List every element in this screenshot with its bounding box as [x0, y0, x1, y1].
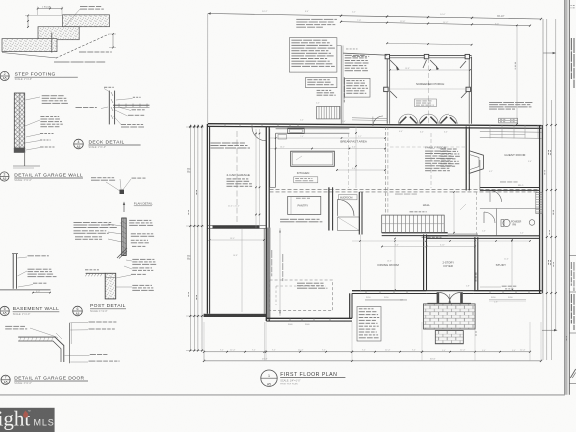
hall south wall — [382, 232, 448, 234]
title circle 3/A5 — [0, 172, 9, 181]
porch mid vertical — [428, 58, 430, 123]
slab note text — [297, 283, 305, 284]
porch roof edge line — [387, 43, 471, 45]
title block dividers — [569, 255, 576, 257]
study wall dim row — [352, 240, 530, 242]
leaders garage wall — [26, 97, 41, 100]
study north wall — [427, 235, 540, 237]
breakfast dim — [337, 169, 385, 171]
garage right / kitchen wall — [265, 127, 267, 322]
step footing stipple band A — [63, 15, 110, 27]
garage wall section hatched wall — [14, 93, 24, 148]
basement ground line — [0, 289, 51, 291]
right dimension lines — [542, 19, 544, 360]
mudroom label box — [339, 195, 358, 200]
step footing riser line — [51, 33, 53, 53]
garage door header wall — [213, 225, 260, 228]
dining left wall lower — [360, 235, 362, 291]
node square — [120, 190, 125, 195]
powder room area — [480, 208, 540, 210]
mudroom door arc — [338, 199, 355, 216]
note block N6 — [317, 90, 321, 91]
cooktop — [288, 128, 305, 133]
step footing stipple band B — [38, 27, 79, 40]
family room dashed vertical — [430, 133, 432, 188]
mud closet — [338, 217, 360, 231]
misc leader marks in plan — [296, 156, 302, 160]
rear wall window ticks — [224, 123, 226, 127]
front wall over doorway — [426, 290, 473, 292]
sheet border line 3 — [568, 0, 570, 395]
note block N7 wall at grade — [489, 101, 502, 104]
foyer left wall — [423, 235, 425, 291]
right side vertical blobs — [543, 170, 546, 172]
note text: min horizontal — [80, 6, 88, 7]
screened porch right edge — [468, 57, 470, 124]
note box N2 general requirements — [289, 38, 337, 72]
porch mid horizontal — [390, 88, 469, 90]
wall base slab bar — [14, 148, 25, 153]
stair text below — [422, 237, 426, 238]
mudroom wall — [328, 187, 330, 230]
entry door jamb leaves — [437, 292, 440, 305]
left dim vertical texts — [188, 168, 189, 170]
basement stair hatch right — [536, 193, 543, 214]
post bracket — [117, 248, 127, 258]
up arrow — [123, 203, 125, 212]
deck boards line — [113, 104, 150, 106]
garage door bottom notes — [90, 354, 96, 355]
family-guest wall — [465, 127, 467, 191]
closet wall guest — [480, 187, 540, 189]
deck top label — [352, 55, 356, 58]
door to be text — [280, 219, 289, 220]
bottom dimension rows — [204, 351, 265, 353]
second dimension row — [341, 22, 530, 26]
grade line — [86, 272, 106, 274]
title circle 6/A5 — [73, 306, 83, 316]
title circle 7/A5 — [1, 375, 10, 384]
kitchen dim row upper — [270, 137, 385, 139]
title block dim line — [542, 19, 544, 125]
garage dim h — [210, 239, 264, 241]
guest hall door arc — [490, 190, 502, 202]
porch interior dim — [390, 69, 470, 71]
note leader top — [65, 9, 80, 26]
front stoop lower step — [435, 331, 463, 344]
post detail top notes — [91, 177, 96, 178]
note box N5 — [345, 78, 370, 97]
pantry — [288, 196, 321, 214]
deck floor edge lines — [352, 117, 387, 120]
french door arcs rear wall — [399, 114, 409, 124]
garage front wall — [204, 314, 267, 317]
front stoop brick — [424, 304, 476, 329]
watermark box — [0, 408, 55, 432]
rotated text block2 — [571, 262, 572, 269]
island — [291, 151, 335, 166]
main front wall right segment — [474, 290, 542, 292]
garage door slab — [18, 337, 64, 362]
basement wall lines — [12, 254, 14, 289]
front jog wall (right of garage) — [266, 317, 352, 319]
rotated text PLANS & DETAILS — [571, 294, 572, 303]
bottom extension verticals — [203, 322, 205, 361]
corner extension vertical — [207, 14, 209, 125]
family ceiling dash — [390, 146, 466, 148]
powder sink — [529, 220, 535, 226]
sheet border line 2 — [566, 0, 568, 395]
deck rotated text — [344, 77, 345, 85]
post left leaders — [108, 224, 122, 226]
lower leaders — [126, 260, 132, 261]
garage door slab small ticks — [56, 333, 62, 339]
small table right — [499, 118, 518, 123]
central beam dashed — [270, 188, 540, 190]
garage left wall — [206, 124, 208, 314]
breakfast deck door arc — [373, 116, 383, 126]
guest wing window sill band — [480, 131, 542, 134]
stair text above — [410, 211, 414, 212]
N2 connector line — [337, 45, 341, 47]
dashed garage slab — [270, 280, 333, 311]
garage wall notes — [42, 95, 50, 96]
title circle 5/A5 — [0, 306, 9, 315]
guest wing dim vertical — [516, 25, 518, 124]
top dimension line — [208, 14, 541, 20]
porch note box — [415, 99, 437, 107]
bottom separator line — [0, 394, 565, 396]
basement wall notes — [28, 254, 34, 257]
entry double door arcs — [439, 293, 450, 304]
deck detail leaders — [104, 89, 110, 93]
garage door leaders — [30, 328, 58, 338]
post member — [122, 218, 127, 256]
kitchen dim verticals — [255, 129, 257, 228]
rotated text A&V BUILDERS — [571, 38, 572, 50]
kitchen counter rear — [276, 128, 350, 130]
left dimension lines — [189, 125, 191, 351]
title circle 2/A5 — [0, 71, 9, 80]
sheet border line 1 — [564, 0, 566, 395]
screened porch top edge — [387, 54, 471, 56]
kitchen sink — [278, 135, 287, 140]
fireplace — [469, 151, 483, 174]
porch knee braces — [390, 60, 398, 68]
deck post vertical member — [108, 91, 110, 125]
small marks near border — [565, 336, 568, 338]
jog vertical — [349, 293, 351, 318]
stairs — [382, 215, 445, 233]
note text: optional footer — [79, 52, 86, 53]
rear wall (north) — [208, 124, 542, 126]
foyer right wall — [474, 237, 476, 291]
leaders to node — [120, 179, 121, 189]
kitchen counter left — [269, 129, 271, 188]
dim right vertical — [112, 34, 114, 48]
right wall (east) — [539, 125, 541, 293]
deck top edge line — [343, 53, 387, 55]
guest notes left — [441, 149, 447, 150]
title block logo mark — [570, 369, 575, 378]
hall dim — [382, 246, 475, 248]
dim left vertical — [27, 16, 29, 28]
mudroom right wall — [358, 192, 360, 235]
step footing dashed slope line — [56, 34, 109, 58]
post lower right notes — [132, 259, 139, 260]
basement wall leaders — [18, 257, 28, 258]
title circle 1/A5 — [261, 370, 277, 386]
deck texts — [346, 48, 349, 51]
stoop landing edge — [427, 302, 471, 304]
post left notes — [74, 222, 82, 223]
watermark flame — [23, 411, 28, 418]
bottom-left notes box — [357, 307, 381, 342]
garage centerline — [236, 131, 238, 222]
note box N3 — [306, 77, 337, 87]
screened porch left edge — [386, 57, 388, 124]
note text: see grading plan — [54, 62, 70, 63]
porch posts — [385, 54, 389, 58]
deck detail notes — [104, 87, 107, 88]
kitchen dim horizontal — [270, 148, 385, 150]
garage door notes top — [5, 326, 12, 327]
post right notes — [129, 220, 136, 221]
garage inner right wall lower — [267, 228, 270, 320]
lay up text — [502, 285, 507, 288]
beam dashed verticals — [385, 127, 387, 216]
toilet — [503, 219, 510, 226]
dining study dims — [394, 239, 396, 291]
garage door vertical — [69, 323, 71, 363]
main front wall left segment — [352, 290, 426, 292]
garage door arc to house — [252, 127, 266, 141]
concrete pier — [105, 273, 116, 299]
title circle 4/A5 — [74, 139, 84, 149]
garage upper text row — [211, 143, 221, 144]
step footing stipple band C — [2, 39, 57, 52]
dim 2 EQUAL — [38, 8, 62, 10]
note block N4 — [345, 55, 352, 56]
deck left edge line — [340, 46, 342, 124]
powder door arc — [484, 212, 495, 223]
note block N1 — [296, 19, 310, 20]
exterior deck stair hatch — [317, 106, 340, 119]
